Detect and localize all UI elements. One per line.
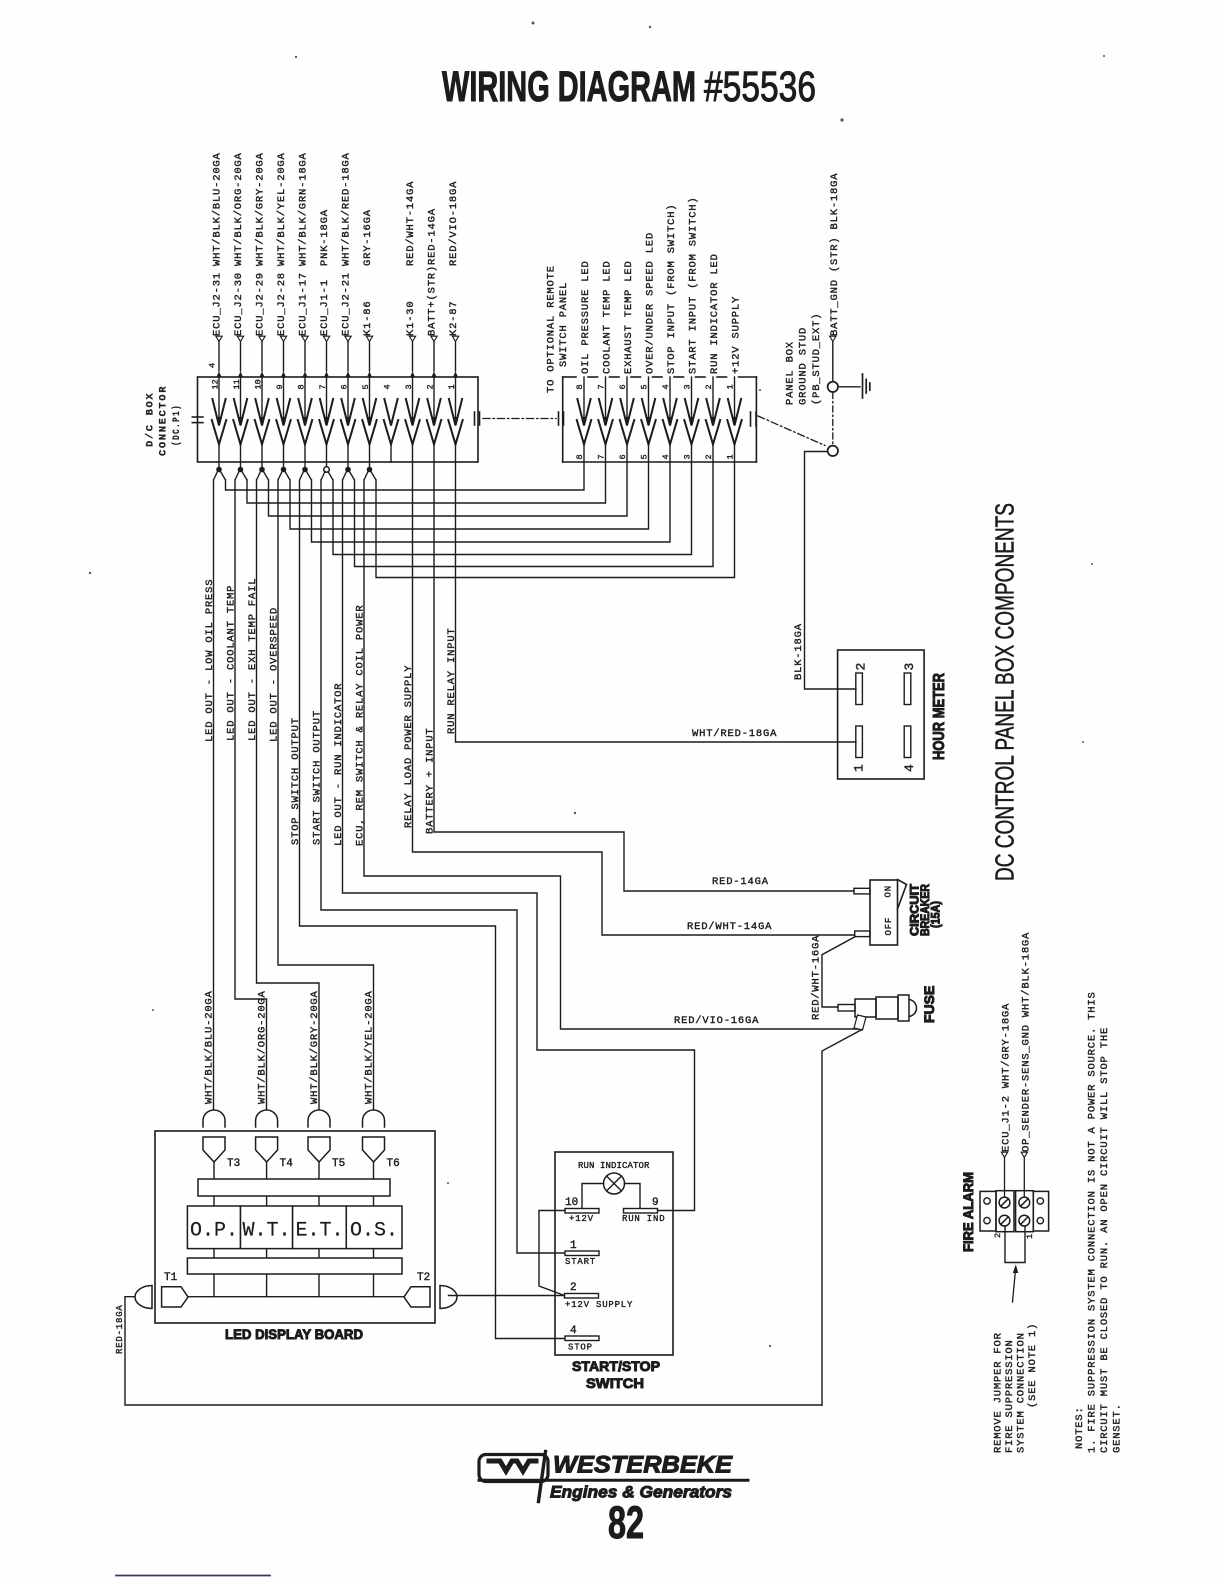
svg-text:RED-18GA: RED-18GA [115,1304,125,1354]
screw terminal [999,1215,1010,1226]
circuit breaker body [870,880,898,945]
svg-text:4: 4 [208,363,218,368]
mate dome right of board [440,1286,457,1309]
svg-text:3: 3 [902,663,917,671]
svg-text:BATT+(STR)RED-14GA: BATT+(STR)RED-14GA [427,208,439,336]
svg-text:START/STOP: START/STOP [572,1358,660,1374]
svg-text:4: 4 [570,1325,577,1337]
label wire pin 5 [366,336,372,341]
svg-text:+12V SUPPLY: +12V SUPPLY [731,296,743,374]
wire to stud [832,342,834,382]
wire to remote panel [290,462,649,529]
start/stop switch box [555,1152,673,1355]
svg-text:STOP: STOP [568,1343,593,1353]
svg-text:WHT/BLK/GRY-20GA: WHT/BLK/GRY-20GA [255,152,267,266]
D/C box connector DC.P1 outline [198,377,479,462]
funnel terminal T5 [308,1137,330,1162]
terminal T2 [404,1287,430,1307]
wire fork right [350,472,355,481]
jumper pin10 to pin2 [539,1211,565,1296]
svg-text:1: 1 [1025,1234,1035,1239]
wire to remote panel [355,462,714,567]
label wire pin 12 [216,336,222,341]
bus bar 2 [187,1258,402,1274]
lamp arms [582,1184,604,1209]
wire to remote panel [312,462,671,542]
svg-text:4: 4 [902,764,917,772]
label wire pin 9 [280,336,286,341]
fuse angled terminal [854,1015,866,1030]
svg-text:LED OUT - RUN INDICATOR: LED OUT - RUN INDICATOR [333,683,345,846]
rail LED OUT - RUN INDICATOR [343,480,695,1211]
svg-text:ECU_J1-2 WHT/GRY-18GA: ECU_J1-2 WHT/GRY-18GA [1001,1003,1013,1152]
bottom margin line [116,1575,270,1577]
svg-text:(15A): (15A) [931,901,943,928]
svg-text:ON: ON [884,885,894,897]
wire RED/WHT-16GA breaker to fuse [822,937,855,1007]
wire fork left [235,472,239,481]
wire fork right [264,472,269,481]
svg-text:ECU, REM SWITCH & RELAY COIL P: ECU, REM SWITCH & RELAY COIL POWER [355,605,367,846]
svg-text:ECU_J2-21: ECU_J2-21 [341,272,353,336]
svg-text:STOP INPUT (FROM SWITCH): STOP INPUT (FROM SWITCH) [666,204,678,374]
hour meter slot 4 [904,726,911,758]
wire fork left [214,472,218,481]
svg-text:BATTERY + INPUT: BATTERY + INPUT [425,727,437,834]
svg-text:START: START [565,1257,596,1267]
svg-text:WHT/BLK/BLU-20GA: WHT/BLK/BLU-20GA [204,990,216,1104]
jumper arrow [1013,1272,1016,1302]
wire T2 to switch [449,1295,565,1297]
board bottom bus T1-T2 [188,1296,404,1298]
wire fork left [300,472,304,481]
fire alarm jumper [1005,1226,1025,1263]
wire to remote panel [269,462,628,516]
label wire pin 7 [323,336,329,341]
rail LED OUT - OVERSPEED [278,480,374,1109]
shell link remote to ground stud [758,416,825,446]
svg-text:HOUR METER: HOUR METER [931,673,948,760]
wire to remote panel [226,462,585,490]
svg-text:GENSET.: GENSET. [1112,1403,1124,1453]
svg-text:T6: T6 [387,1158,400,1170]
node pin 6 [347,462,349,468]
node pin 8 [304,462,306,468]
rail BATTERY + INPUT (pin2) [434,462,854,891]
svg-text:(SEE NOTE 1): (SEE NOTE 1) [1027,1323,1039,1408]
svg-text:PANEL BOX: PANEL BOX [785,341,797,405]
input dome T3 [203,1110,225,1127]
wire to remote panel [376,462,735,578]
svg-text:LED OUT - OVERSPEED: LED OUT - OVERSPEED [269,607,281,742]
svg-text:T5: T5 [332,1158,345,1170]
wire fork right [371,472,376,481]
svg-text:WHT/BLK/YEL-20GA: WHT/BLK/YEL-20GA [364,990,376,1104]
svg-text:T1: T1 [164,1272,178,1284]
svg-text:(DC.P1): (DC.P1) [171,404,183,446]
svg-text:WHT/BLK/YEL-20GA: WHT/BLK/YEL-20GA [276,152,288,266]
ground stud terminal 2 [828,446,838,456]
rail LED OUT - LOW OIL PRESS [213,480,215,1109]
fire alarm wire 1 [1021,1152,1027,1157]
wire fork right [285,472,290,481]
svg-text:EXHAUST TEMP LED: EXHAUST TEMP LED [623,260,635,374]
svg-text:OVER/UNDER SPEED LED: OVER/UNDER SPEED LED [645,232,657,374]
switch pin 9 [624,1209,658,1214]
svg-text:+12V: +12V [569,1214,594,1224]
svg-text:O.P.: O.P. [190,1220,238,1243]
svg-text:LED OUT - COOLANT TEMP: LED OUT - COOLANT TEMP [226,585,238,741]
hour meter slot 3 [904,673,911,705]
fuse [838,1005,855,1012]
hour meter slot 2 [856,673,863,705]
svg-text:CONNECTOR: CONNECTOR [158,385,170,456]
svg-text:WHT/BLK/RED-18GA: WHT/BLK/RED-18GA [341,152,353,266]
rail RUN RELAY INPUT (pin1) [456,462,857,742]
svg-text:K1-86: K1-86 [362,300,374,336]
rail LED OUT - EXH TEMP FAIL [257,480,320,1109]
svg-text:SYSTEM CONNECTION: SYSTEM CONNECTION [1016,1332,1028,1453]
svg-text:RUN RELAY INPUT: RUN RELAY INPUT [446,627,458,734]
label wire pin 1 [452,336,458,341]
node pin 11 [240,462,242,468]
fire alarm wire 2 [1001,1152,1007,1157]
svg-text:START INPUT (FROM SWITCH): START INPUT (FROM SWITCH) [688,196,700,374]
connector shell mark left [192,416,203,418]
svg-text:FIRE ALARM: FIRE ALARM [960,1172,976,1252]
fire alarm terminal block [980,1191,996,1231]
wire fuse to bottom bus [822,1030,862,1406]
svg-text:DC CONTROL PANEL BOX COMPONENT: DC CONTROL PANEL BOX COMPONENTS [990,503,1020,881]
node pin 7 [326,462,328,468]
rail STOP SWITCH OUTPUT [300,480,566,1339]
remote switch panel connector outline [563,376,576,378]
svg-text:ECU_J2-31: ECU_J2-31 [212,272,224,336]
svg-text:OP_SENDER-SENS_GND WHT/BLK-18G: OP_SENDER-SENS_GND WHT/BLK-18GA [1021,932,1033,1152]
run indicator lamp [604,1173,625,1194]
svg-text:STOP SWITCH OUTPUT: STOP SWITCH OUTPUT [290,717,302,845]
wire fork right [307,472,312,481]
wire fork left [364,472,368,481]
wire [213,1162,215,1297]
terminal T1 [162,1287,188,1307]
logo underline [479,1479,748,1482]
svg-text:2: 2 [993,1233,1003,1238]
svg-text:RUN IND: RUN IND [622,1214,665,1224]
svg-text:RED/VIO-18GA: RED/VIO-18GA [448,181,460,266]
svg-text:2: 2 [854,663,869,671]
connector shell mark right [474,412,476,425]
breaker rocker [898,880,907,910]
label wire pin 3 [409,336,415,341]
svg-text:1: 1 [852,764,867,772]
mate dome left of board [135,1286,152,1309]
svg-text:WHT/BLK/GRY-20GA: WHT/BLK/GRY-20GA [309,990,321,1104]
svg-text:WHT/RED-18GA: WHT/RED-18GA [692,728,777,740]
svg-text:1: 1 [570,1240,577,1252]
svg-text:FIRE SUPPRESSION: FIRE SUPPRESSION [1004,1339,1016,1453]
switch pin 2 [565,1294,599,1299]
svg-text:D/C BOX: D/C BOX [145,392,157,447]
svg-text:WESTERBEKE: WESTERBEKE [553,1452,733,1479]
hour meter slot 1 [856,726,863,758]
label wire pin 10 [259,336,265,341]
svg-text:RUN INDICATOR: RUN INDICATOR [578,1161,650,1171]
wire fork left [321,472,325,481]
wire [266,1162,268,1297]
wire fork right [328,472,333,481]
svg-text:OFF: OFF [884,917,894,936]
svg-text:82: 82 [608,1497,644,1548]
label wire pin 6 [345,336,351,341]
label wire pin 2 [431,336,437,341]
svg-text:T2: T2 [417,1272,430,1284]
svg-text:(PB_STUD_EXT): (PB_STUD_EXT) [811,313,823,405]
screw terminal [1019,1197,1030,1208]
wire to remote panel [333,462,692,555]
svg-text:START SWITCH OUTPUT: START SWITCH OUTPUT [312,710,324,845]
node pin 12 [218,462,220,468]
svg-text:E.T.: E.T. [295,1220,343,1243]
wire fork left [343,472,347,481]
svg-text:REMOVE JUMPER FOR: REMOVE JUMPER FOR [993,1332,1005,1453]
svg-text:O.S.: O.S. [350,1220,398,1243]
svg-text:W.T.: W.T. [242,1220,290,1243]
svg-text:WHT/BLK/ORG-20GA: WHT/BLK/ORG-20GA [257,990,269,1104]
hour meter box [838,650,925,779]
svg-text:K2-87: K2-87 [448,300,460,336]
svg-text:LED DISPLAY BOARD: LED DISPLAY BOARD [225,1326,363,1342]
svg-text:RUN INDICATOR LED: RUN INDICATOR LED [709,253,721,374]
svg-text:T4: T4 [280,1158,294,1170]
funnel terminal T6 [363,1137,385,1162]
svg-text:K1-30: K1-30 [405,300,417,336]
wire fork left [257,472,261,481]
rail ECU REM SWITCH & RELAY COIL POWER [364,480,861,1029]
BLK-18GA wire stud to hour meter [805,452,857,690]
svg-text:2: 2 [570,1282,577,1294]
svg-text:ECU_J2-28: ECU_J2-28 [276,272,288,336]
svg-text:RED-14GA: RED-14GA [712,876,769,888]
switch pin 10 [565,1209,599,1214]
input dome T6 [363,1110,385,1127]
svg-text:10: 10 [565,1197,578,1209]
bus bar 1 [198,1179,390,1196]
svg-text:SWITCH PANEL: SWITCH PANEL [558,282,570,367]
Westerbeke logo box [479,1455,548,1482]
svg-text:LED OUT - LOW OIL PRESS: LED OUT - LOW OIL PRESS [204,579,216,742]
svg-text:RED/WHT-16GA: RED/WHT-16GA [811,935,823,1020]
scan specks [532,22,535,25]
logo W glyph [489,1461,536,1471]
LED segment boxes [187,1206,240,1249]
svg-text:OIL PRESSURE LED: OIL PRESSURE LED [580,260,592,374]
funnel terminal T3 [203,1137,225,1162]
screw terminal [999,1197,1010,1208]
svg-text:9: 9 [652,1197,659,1209]
svg-text:SWITCH: SWITCH [586,1375,644,1391]
svg-text:WHT/BLK/BLU-20GA: WHT/BLK/BLU-20GA [212,152,224,266]
rail START SWITCH OUTPUT [321,480,565,1253]
svg-text:ECU_J1-1: ECU_J1-1 [319,279,331,336]
node pin 9 [283,462,285,468]
wire [373,1162,375,1297]
svg-text:RED/WHT-14GA: RED/WHT-14GA [687,921,772,933]
svg-text:CIRCUIT MUST BE CLOSED TO RUN.: CIRCUIT MUST BE CLOSED TO RUN. AN OPEN C… [1099,1027,1111,1453]
svg-text:NOTES:: NOTES: [1074,1406,1086,1449]
svg-text:PNK-18GA: PNK-18GA [319,209,331,266]
svg-text:WIRING DIAGRAM: WIRING DIAGRAM [442,63,696,111]
rail RELAY LOAD POWER SUPPLY (pin3) [413,462,855,935]
switch pin 4 [565,1336,599,1341]
svg-text:COOLANT TEMP LED: COOLANT TEMP LED [602,260,614,374]
svg-text:TO OPTIONAL REMOTE: TO OPTIONAL REMOTE [546,265,558,393]
input dome T5 [308,1110,330,1127]
switch pin 1 [565,1251,599,1256]
breaker terminal OFF [855,931,870,937]
earth ground symbol [838,386,860,388]
wire fork left [278,472,282,481]
label wire pin 11 [237,336,243,341]
ground stud terminal 1 [828,382,838,392]
svg-text:BLK-18GA: BLK-18GA [793,623,805,680]
svg-text:RED/WHT-14GA: RED/WHT-14GA [405,181,417,266]
wire fork right [242,472,247,481]
dash-dot between studs [832,393,834,446]
svg-text:#55536: #55536 [704,63,816,111]
input dome T4 [256,1110,278,1127]
bottom bus wire [125,1297,822,1405]
screw terminal [1019,1215,1030,1226]
svg-text:ECU_J1-17: ECU_J1-17 [298,272,310,336]
svg-text:+12V SUPPLY: +12V SUPPLY [565,1300,633,1310]
svg-text:BATT_GND (STR) BLK-18GA: BATT_GND (STR) BLK-18GA [829,173,841,336]
node pin 5 [369,462,371,468]
svg-text:GROUND STUD: GROUND STUD [798,327,810,405]
funnel terminal T4 [256,1137,278,1162]
svg-text:LED OUT - EXH TEMP FAIL: LED OUT - EXH TEMP FAIL [247,578,259,741]
svg-text:ECU_J2-30: ECU_J2-30 [233,272,245,336]
LED display board outline [155,1131,435,1323]
svg-text:RELAY LOAD POWER SUPPLY: RELAY LOAD POWER SUPPLY [403,665,415,828]
wire [318,1162,320,1297]
svg-text:FUSE: FUSE [921,986,937,1023]
rail LED OUT - COOLANT TEMP [235,480,267,1109]
shell link D/C to remote [483,418,556,420]
wire to remote panel [247,462,606,503]
svg-text:1. FIRE SUPPRESSION SYSTEM CON: 1. FIRE SUPPRESSION SYSTEM CONNECTION IS… [1087,991,1099,1453]
svg-text:T3: T3 [227,1158,240,1170]
connector shell marks remote [558,412,560,425]
node pin 10 [261,462,263,468]
label wire pin 8 [302,336,308,341]
svg-text:ECU_J2-29: ECU_J2-29 [255,272,267,336]
logo stem [539,1452,546,1502]
svg-text:WHT/BLK/ORG-20GA: WHT/BLK/ORG-20GA [233,152,245,266]
svg-text:WHT/BLK/GRN-18GA: WHT/BLK/GRN-18GA [298,152,310,266]
svg-text:4: 4 [383,384,393,389]
wire fork right [221,472,226,481]
svg-text:GRY-16GA: GRY-16GA [362,209,374,266]
breaker terminal ON [854,888,870,894]
svg-text:RED/VIO-16GA: RED/VIO-16GA [674,1015,759,1027]
